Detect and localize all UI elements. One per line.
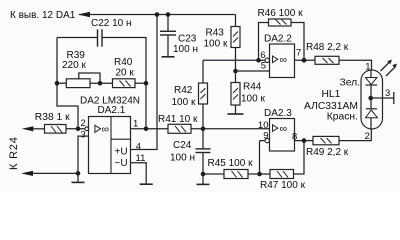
- svg-text:∞: ∞: [102, 123, 110, 135]
- pin number 9: [263, 131, 268, 142]
- wire pin 9 of DA2.3 (inverting input): [260, 141, 265, 174]
- svg-text:100 н: 100 н: [173, 44, 198, 55]
- svg-text:∞: ∞: [280, 54, 288, 66]
- resistor R40: [113, 79, 136, 88]
- svg-text:9: 9: [263, 131, 268, 142]
- node junction R45/R47/pin9: [257, 172, 262, 177]
- svg-text:HL1: HL1: [322, 89, 341, 100]
- resistor R45: [224, 170, 248, 179]
- svg-text:+U: +U: [115, 147, 128, 158]
- value label C24 100 н: [170, 140, 195, 163]
- svg-text:DA2.1: DA2.1: [98, 105, 126, 116]
- resistor R41: [168, 124, 191, 133]
- resistor R47 (feedback DA2.3): [270, 141, 304, 179]
- node junction C24/R45/ground: [201, 172, 206, 177]
- wire feedback loop top right: [102, 38, 146, 129]
- pin number 11: [136, 153, 146, 164]
- resistor R46 (feedback DA2.2): [259, 19, 305, 60]
- inversion circle pin 6: [265, 58, 269, 62]
- wire R38 to pin 2: [66, 128, 85, 130]
- svg-text:6: 6: [260, 50, 265, 61]
- wire feedback loop top left: [57, 37, 97, 39]
- svg-text:−U: −U: [115, 158, 128, 169]
- svg-text:Красн.: Красн.: [327, 112, 358, 123]
- svg-text:R44: R44: [243, 82, 262, 93]
- svg-text:R42: R42: [174, 85, 193, 96]
- node pin5 junction: [233, 69, 238, 74]
- node junction R39/R40 wiper: [98, 81, 103, 86]
- node junction loop left / R39: [55, 81, 60, 86]
- arrow to pin 12 of DA1: [78, 12, 90, 17]
- op-amp DA2.1: [89, 117, 131, 174]
- svg-text:Зел.: Зел.: [340, 78, 360, 89]
- inversion circle pin 9: [265, 138, 269, 142]
- svg-text:100 к: 100 к: [241, 94, 265, 105]
- resistor R38: [33, 15, 78, 134]
- wire R39 left: [57, 82, 66, 84]
- wire R41 to DA2.3 pin 10: [191, 128, 270, 130]
- op-amp DA2.2: [270, 44, 295, 78]
- wire R49 to LED pin 2: [339, 129, 371, 141]
- pin number 4: [136, 142, 141, 153]
- resistor R49: [313, 136, 339, 144]
- wire C24 node to R45: [203, 173, 224, 175]
- svg-text:К R24: К R24: [8, 136, 20, 170]
- resistor R39 (trimmer 220к): [66, 73, 100, 88]
- svg-text:R49 2,2 к: R49 2,2 к: [306, 147, 349, 158]
- label DA2 LM324N: [80, 95, 140, 106]
- ground (pin 3 node): [72, 173, 85, 182]
- value label C22 10 н: [91, 18, 132, 29]
- wire R39-R40: [90, 82, 113, 84]
- value label C23 100 н: [173, 33, 198, 55]
- svg-text:100 н: 100 н: [170, 153, 195, 164]
- svg-text:2: 2: [365, 131, 370, 142]
- svg-text:R47 100 к: R47 100 к: [260, 180, 306, 191]
- pin number 1 (HL1): [365, 62, 370, 73]
- wire R43 bottom to pin5 node: [235, 48, 237, 72]
- ground (C24 node): [197, 174, 210, 184]
- wire pin 11 of DA2.1 to ground: [131, 163, 147, 184]
- svg-text:C23: C23: [178, 33, 197, 44]
- arrow to R24 (upper): [22, 126, 34, 131]
- LED green diode VD (top): [366, 70, 378, 109]
- pin number 3: [81, 130, 86, 141]
- value label R43 100 к: [204, 28, 228, 50]
- label Красн.: [327, 112, 358, 123]
- label DA2.3: [264, 108, 292, 119]
- svg-text:∞: ∞: [280, 123, 288, 135]
- op-amp DA2.3: [270, 119, 295, 152]
- svg-text:R46 100 к: R46 100 к: [258, 8, 304, 19]
- svg-text:100 к: 100 к: [204, 39, 228, 50]
- pin number 3 (HL1): [385, 88, 390, 99]
- pin number 1: [133, 119, 138, 130]
- value label R48 2,2 к: [306, 42, 349, 53]
- value label R42 100 к: [172, 85, 196, 108]
- node junction pin2/loop: [76, 127, 81, 132]
- value label R41 10 к: [158, 114, 198, 125]
- wire feedback loop left side: [57, 38, 78, 129]
- svg-text:5: 5: [261, 61, 266, 72]
- resistor R48: [315, 56, 339, 64]
- svg-text:1: 1: [365, 62, 370, 73]
- ground (R44): [228, 113, 244, 115]
- node junction R47 right / pin8: [302, 138, 307, 143]
- label DA2.1: [98, 105, 126, 116]
- label К R24 (rotated): [8, 136, 20, 170]
- value label R47 100 к: [260, 180, 306, 191]
- pin number 2: [81, 118, 86, 129]
- svg-text:DA2.3: DA2.3: [264, 108, 292, 119]
- svg-text:C24: C24: [173, 140, 192, 151]
- svg-text:1: 1: [133, 119, 138, 130]
- resistor R43: [231, 27, 240, 48]
- svg-text:3: 3: [385, 88, 390, 99]
- value label R46 100 к: [258, 8, 304, 19]
- wire R45 to pin9 node: [248, 173, 270, 175]
- pin number 10: [258, 120, 269, 131]
- svg-text:К выв. 12 DA1: К выв. 12 DA1: [10, 10, 76, 21]
- svg-text:АЛС331АМ: АЛС331АМ: [304, 101, 358, 112]
- svg-text:R45 100 к: R45 100 к: [208, 158, 254, 169]
- svg-text:100 к: 100 к: [172, 97, 196, 108]
- resistor R42: [199, 60, 208, 129]
- wire +U riser to DA2.1 pin 4: [131, 15, 158, 150]
- LED HL1 package outline: [361, 70, 383, 129]
- wire to R24 (lower): [33, 172, 78, 174]
- wire pin 5 of DA2.2: [236, 70, 270, 72]
- svg-text:R48 2,2 к: R48 2,2 к: [306, 42, 349, 53]
- LED red diode VD (bottom): [366, 109, 378, 129]
- node junction R46 right / pin7: [302, 58, 307, 63]
- svg-text:R41 10 к: R41 10 к: [158, 114, 198, 125]
- wire pin 7 output of DA2.2: [295, 59, 316, 61]
- svg-text:R38 1 к: R38 1 к: [35, 112, 70, 123]
- node junction top rail x168 (C23 tap): [166, 12, 171, 17]
- wire R48 to LED pin 1: [339, 60, 372, 70]
- wire pin 6 of DA2.2 (inverting input): [203, 59, 265, 61]
- label АЛС331АМ: [304, 101, 358, 112]
- ground (pin 11): [140, 183, 153, 185]
- svg-text:7: 7: [296, 48, 301, 59]
- pin number 7: [296, 48, 301, 59]
- node junction output/loop right: [144, 127, 149, 132]
- label HL1: [322, 89, 341, 100]
- svg-text:20 к: 20 к: [116, 67, 135, 78]
- svg-text:3: 3: [81, 130, 86, 141]
- light emission arrows: [381, 60, 398, 77]
- node junction pin3/ground: [76, 171, 81, 176]
- node junction top rail x157: [155, 12, 160, 17]
- arrow to R24 (lower): [21, 171, 33, 176]
- capacitor C22: [98, 29, 103, 46]
- svg-text:10: 10: [258, 120, 269, 131]
- value label R45 100 к: [208, 158, 254, 169]
- ground (C23): [162, 56, 175, 58]
- capacitor C24: [196, 129, 211, 174]
- node junction loop right / R40: [144, 81, 149, 86]
- value label R44 100 к: [241, 82, 265, 105]
- node junction R41/R42/C24/pin10: [201, 127, 206, 132]
- svg-text:2: 2: [81, 118, 86, 129]
- value label R38 1 к: [35, 112, 70, 123]
- pin number 2 (HL1): [365, 131, 370, 142]
- svg-text:4: 4: [136, 142, 141, 153]
- wire pin 3 of HL1: [371, 92, 394, 104]
- wire R43 riser from top rail: [235, 15, 237, 27]
- node junction R46 left / pin6: [256, 58, 261, 63]
- pin number 8: [292, 131, 297, 142]
- label DA2.2: [264, 34, 292, 45]
- svg-text:DA2.2: DA2.2: [264, 34, 292, 45]
- wire pin 1 output of DA2.1 to R41: [131, 128, 169, 130]
- wire pin 3 of DA2.1: [78, 136, 89, 173]
- svg-text:C22 10 н: C22 10 н: [91, 18, 132, 29]
- inversion circle pin 2: [85, 127, 89, 131]
- svg-text:220 к: 220 к: [62, 60, 86, 71]
- wire pin 8 output of DA2.3: [295, 140, 314, 142]
- svg-text:11: 11: [136, 153, 146, 164]
- label К выв. 12 DA1: [10, 10, 76, 21]
- label Зел.: [340, 78, 360, 89]
- wire top supply rail from DA1 pin 12: [79, 14, 236, 16]
- pin number 6: [260, 50, 265, 61]
- value label R49 2,2 к: [306, 147, 349, 158]
- capacitor C23: [160, 15, 176, 57]
- resistor R44: [231, 71, 240, 114]
- value label R39 220 к: [62, 50, 86, 71]
- wire R40 right: [135, 82, 146, 84]
- pin number 5: [261, 61, 266, 72]
- svg-text:R43: R43: [206, 28, 225, 39]
- value label R40 20 к: [114, 57, 134, 78]
- node junction common cathode: [368, 96, 373, 101]
